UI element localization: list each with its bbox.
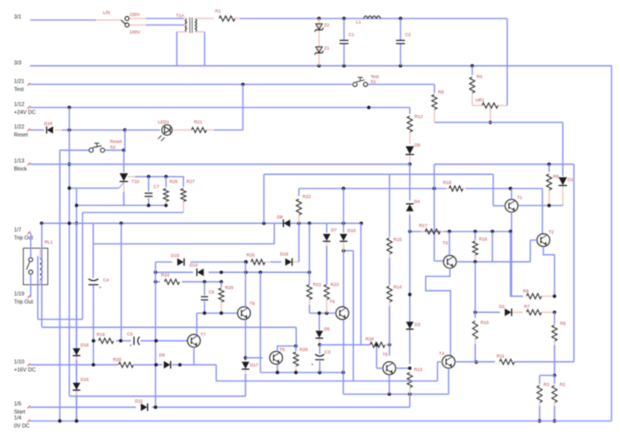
svg-text:R6: R6 [523, 289, 529, 294]
node t5 feed [375, 343, 378, 346]
svg-text:3/1: 3/1 [14, 15, 21, 21]
diode D16 [73, 223, 90, 381]
wire x260 drop [259, 272, 261, 372]
thyristor T10 [68, 173, 140, 205]
svg-text:Trip Out: Trip Out [14, 299, 33, 305]
svg-text:1/13: 1/13 [14, 159, 24, 165]
svg-text:D19: D19 [280, 252, 289, 257]
wire t8base corner [196, 313, 198, 328]
wire x475 chain [474, 262, 476, 318]
svg-text:D15: D15 [171, 253, 180, 258]
svg-text:1/19: 1/19 [14, 291, 24, 297]
node y231 x492 [491, 230, 494, 233]
transistor T1 [505, 195, 523, 212]
diode D14 [190, 263, 204, 277]
link L/N [121, 20, 127, 25]
node y262 r30 [244, 260, 247, 263]
wire gate drop [76, 188, 78, 421]
svg-text:D15: D15 [81, 377, 90, 382]
wire +16V rail [30, 365, 216, 381]
svg-text:T8: T8 [250, 301, 256, 306]
wire Start rail [30, 406, 410, 408]
node x76 y223 [75, 222, 78, 225]
wire t5 top [389, 345, 391, 356]
wire x434 mid drop [434, 164, 443, 261]
resistor R5 [552, 312, 566, 375]
svg-text:D7: D7 [331, 228, 337, 233]
terminal 1/21 [14, 79, 30, 93]
diode D19 [280, 252, 299, 266]
node y231 t1e [509, 230, 512, 233]
node y312 right [553, 311, 556, 314]
wire d6 chain down [409, 164, 411, 200]
terminal 1/10 [14, 359, 36, 373]
node y394 t5 [388, 392, 391, 395]
svg-text:T1: T1 [517, 195, 523, 200]
transistor T9 [270, 351, 283, 364]
wire rail y122 [434, 121, 562, 123]
LED LED1 [158, 120, 172, 142]
resistor R18 [443, 180, 466, 191]
diode D2 [499, 304, 523, 316]
resistor R2 [552, 375, 566, 421]
node y372 t9 [276, 371, 279, 374]
diode D9 [159, 353, 171, 369]
wire x296 drop [295, 327, 297, 346]
diode D17 [242, 362, 259, 397]
node 24v left [68, 106, 71, 109]
transistor T3 [443, 241, 457, 269]
svg-text:Test: Test [14, 87, 24, 93]
diode D15a [171, 253, 184, 266]
svg-text:Reset: Reset [110, 139, 123, 144]
resistor R12 [407, 108, 423, 145]
wire t7 emitter [193, 347, 195, 365]
terminal 3/1 [14, 15, 21, 21]
node t10 anode [122, 149, 125, 152]
node 0v x59 [58, 419, 61, 422]
node C2 bottom [399, 64, 402, 67]
svg-text:230V: 230V [130, 12, 141, 17]
resistor R21b [307, 223, 322, 313]
node y344 r14 [388, 343, 391, 346]
node 0v x76 [75, 419, 78, 422]
node R4 top [471, 64, 474, 67]
svg-text:1/4: 1/4 [14, 416, 21, 422]
wire y381 row [216, 380, 437, 382]
wire y394 [343, 393, 448, 395]
node 16v c5 [154, 363, 157, 366]
svg-text:R10: R10 [481, 320, 490, 325]
wire t2 emitter [543, 247, 554, 297]
wire t6 collector [343, 251, 345, 307]
node y312 left [474, 311, 477, 314]
svg-text:T1A: T1A [176, 13, 184, 18]
capacitor C2 [396, 19, 411, 66]
terminal 1/13 [14, 159, 30, 173]
svg-text:R1: R1 [215, 9, 221, 14]
svg-text:R8: R8 [438, 90, 444, 95]
relay RL1 box [23, 240, 53, 285]
resistor R9 [547, 164, 560, 205]
svg-text:R16: R16 [479, 237, 488, 242]
svg-text:D10: D10 [348, 228, 357, 233]
node y282 r29 [220, 280, 223, 283]
wire x155 long [155, 262, 157, 407]
wire y164 line [434, 163, 574, 165]
node t5 r13 [408, 367, 411, 370]
wire secondary return [204, 32, 206, 66]
node C1 bottom [342, 64, 345, 67]
svg-text:R20: R20 [113, 357, 122, 362]
node x76 y205 [75, 204, 78, 207]
wire y327 row [42, 326, 296, 328]
svg-text:R14: R14 [394, 285, 403, 290]
wire x69 drop [68, 108, 70, 397]
wire r3 top [540, 374, 555, 376]
node y372 r26 [294, 371, 297, 374]
wire reset sw right [105, 149, 124, 151]
wire t8 base row [197, 312, 238, 314]
diode D10 [340, 189, 357, 251]
svg-text:0V DC: 0V DC [14, 424, 30, 430]
svg-text:R22: R22 [303, 194, 312, 199]
svg-text:D14: D14 [190, 263, 199, 268]
wire y212 row [38, 213, 184, 320]
node r9 bottom [547, 204, 550, 207]
resistor R20 [113, 357, 134, 367]
svg-text:D8: D8 [277, 215, 283, 220]
wire t9 emitter [276, 364, 278, 372]
svg-text:R15: R15 [394, 237, 403, 242]
svg-text:R2: R2 [560, 382, 566, 387]
varistor UR1 [472, 98, 507, 123]
wire t5 right [396, 367, 410, 369]
diode D11 [135, 399, 148, 412]
wire t7 collector [196, 329, 198, 335]
svg-text:R27: R27 [187, 179, 196, 184]
wire y282 row [156, 281, 222, 283]
svg-text:R23: R23 [331, 282, 340, 287]
svg-text:S2: S2 [110, 145, 116, 150]
node r10 bottom [475, 360, 478, 363]
svg-text:D17: D17 [250, 363, 259, 368]
wire y250 jog [344, 250, 354, 252]
wire reset to t10 [124, 130, 125, 172]
wire reset sw left [60, 149, 89, 151]
label T9 [280, 347, 286, 352]
terminal 1/4 [14, 416, 30, 430]
node y262 t8 [244, 260, 247, 263]
wire coil left [37, 256, 39, 319]
wire y312 row [475, 311, 500, 313]
node d5 bottom [318, 343, 321, 346]
svg-text:RL1: RL1 [45, 240, 54, 245]
switch S2 Reset [89, 139, 122, 152]
node y372 c3 [318, 371, 321, 374]
svg-text:1/10: 1/10 [14, 359, 24, 365]
node C1 top [342, 17, 345, 20]
wire y272 row [156, 271, 310, 273]
svg-text:R19: R19 [97, 332, 106, 337]
wire top secondary rail [319, 18, 507, 20]
node 16v c4 [92, 363, 95, 366]
svg-text:1/22: 1/22 [14, 125, 24, 131]
wire t6 emitter [342, 320, 344, 395]
wire x59 long drop [59, 150, 61, 421]
capacitor C5 [127, 332, 140, 349]
svg-text:R9: R9 [553, 174, 559, 179]
wire y396 row [69, 395, 245, 397]
node y272 x309 [308, 271, 311, 274]
node r6 right [553, 295, 556, 298]
wire y262 row [156, 261, 282, 263]
capacitor C3 [311, 345, 331, 373]
node y340 x121 [119, 339, 122, 342]
node test/led [241, 83, 244, 86]
svg-text:D1: D1 [568, 177, 574, 182]
wire x353 drop [352, 251, 354, 381]
node 100V tap [125, 23, 184, 27]
diode D6 [406, 143, 421, 165]
svg-text:Block: Block [14, 167, 27, 173]
svg-text:+: + [311, 362, 314, 367]
diode D15b [73, 360, 90, 421]
node Z top [317, 17, 320, 20]
wire x264 drop [263, 174, 265, 223]
wire t6 base row [310, 312, 337, 314]
svg-text:D4: D4 [414, 199, 420, 204]
node y394 r13 [408, 392, 411, 395]
svg-text:1/7: 1/7 [14, 227, 21, 233]
node y188 x343 [342, 187, 345, 190]
svg-text:C2: C2 [405, 32, 411, 37]
resistor R28 [320, 337, 390, 348]
node block/d6 [408, 163, 411, 166]
node Z bottom [317, 64, 320, 67]
node y223 x264 [262, 222, 265, 225]
node y223 x343 [342, 222, 345, 225]
svg-text:T3: T3 [443, 241, 449, 246]
svg-text:+24V DC: +24V DC [14, 110, 36, 116]
wire y174 line [264, 173, 493, 175]
svg-text:R7: R7 [524, 304, 530, 309]
node t9 branch [244, 356, 247, 359]
wire x409 mid2 [409, 232, 411, 365]
wire 3/3 rail [30, 65, 612, 67]
svg-text:Reset: Reset [14, 133, 28, 139]
wire 1/7 stub [29, 233, 32, 258]
wire Test rail [30, 83, 352, 85]
wire y188 line [299, 188, 543, 190]
wire r6 row [511, 232, 524, 297]
wire t4 emitter [448, 368, 450, 394]
relay coil [40, 248, 42, 285]
wire coil right [41, 223, 43, 327]
node 0v r3 [538, 419, 541, 422]
wire y340 row [93, 340, 188, 342]
diode D1 [559, 122, 574, 205]
wire 0V rail [30, 420, 612, 422]
wire t1 emitter [511, 212, 513, 296]
svg-text:D9: D9 [159, 353, 165, 358]
svg-text:1/5: 1/5 [14, 402, 21, 408]
wire x361 drop [360, 223, 362, 344]
wire Block rail [30, 163, 410, 165]
switch S1 Test [353, 74, 435, 87]
node y282 x155 [154, 280, 157, 283]
wire 1/19 stub [29, 274, 32, 297]
node y282 c6 [203, 280, 206, 283]
node y223 x309 [308, 222, 311, 225]
node r16 bottom [474, 260, 477, 263]
node t8base r29 [220, 311, 223, 314]
resistor R26 [293, 346, 308, 372]
wire x409 start [409, 394, 411, 407]
resistor R19 [97, 332, 114, 343]
resistor R8 [432, 84, 444, 122]
svg-text:C6: C6 [209, 290, 215, 295]
wire t9 collector [277, 346, 296, 352]
svg-text:R28: R28 [366, 337, 375, 342]
node y372 right [342, 371, 345, 374]
wire +24V rail [30, 107, 410, 109]
wire x121 [120, 223, 122, 340]
node t6b r23 [325, 311, 328, 314]
label T1A [176, 13, 184, 18]
resistor R23 [324, 282, 339, 313]
svg-text:C3: C3 [325, 350, 331, 355]
svg-text:Z2: Z2 [324, 23, 330, 28]
svg-text:R25: R25 [170, 179, 179, 184]
node y272 x155 [154, 271, 157, 274]
transistor T2 [537, 230, 554, 247]
svg-text:R12: R12 [415, 114, 424, 119]
svg-text:100V: 100V [130, 30, 141, 35]
node y250 [342, 249, 345, 252]
wire y344 row [0, 0, 1, 1]
wire t4 right [455, 361, 495, 363]
capacitor C6 [201, 282, 215, 313]
svg-text:T7: T7 [201, 332, 207, 337]
svg-text:D11: D11 [135, 399, 143, 404]
diode D4 [406, 199, 420, 232]
node y223 x299 [297, 222, 300, 225]
wire x93 c4 chain [92, 223, 94, 278]
svg-text:R13: R13 [414, 367, 423, 372]
capacitor C1 [340, 19, 355, 66]
wire y231 line [410, 231, 511, 233]
node r25 top [164, 175, 167, 178]
wire t10 bottom row [76, 204, 166, 206]
diode D8 [277, 215, 290, 228]
wire x274 up [273, 223, 275, 244]
R4 body [470, 74, 483, 106]
label 100V [130, 30, 141, 35]
svg-text:Z1: Z1 [324, 46, 330, 51]
resistor R24 [161, 273, 180, 285]
wire x299 below [298, 223, 300, 262]
wire t8 emitter [245, 320, 247, 361]
wire t2 base [530, 240, 537, 262]
relay contact [27, 258, 33, 274]
node x409 y294 [408, 293, 411, 296]
node y188 x434 [433, 187, 436, 190]
wire x573 drop [573, 164, 575, 362]
transistor T5 [383, 352, 396, 375]
resistor R13 [407, 367, 423, 394]
svg-text:+: + [99, 285, 102, 290]
wire y372 row [260, 372, 343, 374]
resistor R1 [215, 9, 319, 22]
svg-text:D2: D2 [499, 304, 505, 309]
svg-text:LED1: LED1 [158, 120, 170, 125]
svg-text:R29: R29 [225, 285, 234, 290]
svg-text:L1: L1 [356, 20, 362, 25]
wire t8 collector [245, 262, 247, 307]
svg-text:D18: D18 [44, 121, 53, 126]
svg-text:R3: R3 [544, 382, 550, 387]
label L/N [103, 10, 110, 15]
svg-text:T4: T4 [439, 351, 445, 356]
node start x156 [154, 406, 157, 409]
terminal 1/12 [14, 102, 36, 116]
wire t3 line right [456, 261, 530, 263]
wire primary return [176, 32, 178, 66]
diode D18 [30, 121, 125, 134]
wire t9 base row [246, 357, 263, 359]
svg-text:1/21: 1/21 [14, 79, 24, 85]
terminal 1/5 [14, 402, 30, 416]
node r2 top [553, 374, 556, 377]
svg-text:R21: R21 [313, 282, 322, 287]
svg-text:R18: R18 [443, 180, 452, 185]
resistor R27 [181, 177, 195, 213]
resistor R17 [419, 223, 444, 234]
svg-text:R24: R24 [161, 273, 170, 278]
node C2/L1 [399, 17, 402, 20]
node y272 x221 [220, 271, 223, 274]
node y231 t3 [448, 230, 451, 233]
node r26 top [294, 344, 297, 347]
resistor R25 [163, 177, 178, 206]
node reset x69 [68, 128, 71, 131]
wire reset to led [125, 129, 160, 131]
svg-text:R4: R4 [477, 74, 483, 79]
node y231 x409 [408, 230, 411, 233]
transistor T7 [188, 332, 207, 347]
svg-text:UR1: UR1 [476, 98, 485, 103]
transformer T1A [177, 18, 214, 34]
transistor T6 [330, 299, 349, 320]
node c7 bottom [147, 204, 150, 207]
terminal 3/3 [14, 60, 21, 66]
node t6b d5 [318, 311, 321, 314]
diode D3 [406, 322, 421, 329]
inductor L1 [356, 16, 381, 25]
wire t10 row [128, 176, 185, 178]
svg-text:C4: C4 [103, 278, 109, 283]
svg-text:C1: C1 [349, 32, 355, 37]
wire t2 collector drop [541, 189, 543, 234]
wire y243 line [93, 243, 274, 245]
wire t5 base [377, 345, 383, 368]
node t8base c6 [203, 311, 206, 314]
svg-text:S1: S1 [371, 79, 377, 84]
diode D7 [323, 223, 337, 284]
wire t1 collector [511, 189, 513, 200]
node y223 x69 [68, 222, 71, 225]
